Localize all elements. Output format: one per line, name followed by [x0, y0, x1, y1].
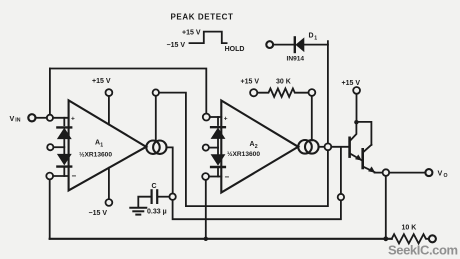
wire hold node down and across to transistor-base loop	[173, 200, 341, 219]
op-amp A2	[221, 101, 298, 193]
svg-text:+15 V: +15 V	[241, 78, 260, 85]
A2 linearizing diode pair	[211, 117, 225, 177]
wire emitter node down to bottom rail	[385, 176, 387, 239]
wire D1 cathode down to A2 output node	[327, 45, 329, 144]
node hold-capacitor pin circle	[169, 194, 175, 200]
pin circle above A1 mirror	[153, 89, 159, 95]
svg-text:30 K: 30 K	[276, 78, 291, 85]
pin circle on base loop	[338, 194, 344, 200]
svg-text:+15 V: +15 V	[92, 78, 111, 85]
svg-text:1: 1	[100, 143, 103, 149]
wire VIN to input node	[36, 117, 47, 119]
svg-text:½XR13600: ½XR13600	[227, 150, 260, 158]
transistor Q2 (darlington output)	[363, 145, 375, 172]
svg-text:0.33 µ: 0.33 µ	[147, 208, 167, 215]
wire - pin to A1	[53, 175, 68, 177]
pin circle A1 inverting input	[46, 173, 53, 180]
svg-text:−: −	[72, 171, 77, 180]
svg-text:C: C	[152, 183, 157, 190]
wire mirror to output pin circle	[319, 146, 325, 148]
bottom rail	[50, 238, 392, 240]
pin circle A2 diode bias	[203, 145, 209, 151]
pin circle A2 output	[325, 143, 332, 150]
wire Q2 emitter to output node	[375, 172, 383, 174]
resistor 30K with +15V terminal	[241, 78, 309, 97]
A1 linearizing diode pair (input diodes)	[57, 118, 71, 176]
svg-text:−15 V: −15 V	[89, 210, 108, 217]
wire pin circle up to base wire	[340, 147, 342, 194]
svg-text:SeekIC.com: SeekIC.com	[388, 243, 458, 258]
ground	[130, 208, 146, 215]
wire A1 mirror output down to hold capacitor node	[167, 147, 173, 193]
wire pin down into A2 mirror	[311, 96, 313, 140]
svg-text:2: 2	[255, 144, 258, 150]
junction collector supply	[354, 120, 358, 124]
svg-text:IN: IN	[15, 117, 20, 123]
svg-text:A: A	[95, 140, 100, 147]
wire node to A1 + input	[53, 117, 69, 119]
A2 output current-mirror symbol	[298, 140, 318, 154]
svg-text:PEAK DETECT: PEAK DETECT	[170, 13, 233, 22]
wire junction to Q2 collector	[356, 122, 371, 145]
wire pin down into mirror	[155, 96, 157, 141]
wire A1 - pin down to bottom rail	[49, 180, 51, 239]
pin circle above A2 mirror	[309, 89, 316, 96]
svg-text:A: A	[250, 141, 255, 148]
terminal Vo	[425, 169, 447, 179]
terminal VIN	[10, 114, 36, 124]
pin circle A2 + input	[203, 114, 210, 121]
wire top rail across to A2 + pin	[50, 69, 206, 114]
svg-text:−: −	[225, 173, 230, 182]
svg-text:V: V	[438, 169, 443, 178]
wire input node up to top rail	[49, 69, 51, 115]
wire + pin to A2	[210, 116, 221, 118]
wire A2 - pin down to bottom rail	[205, 180, 207, 239]
junction A2 - feedback	[204, 237, 208, 241]
resistor 10K	[392, 224, 436, 243]
diode D1 1N914 with HOLD terminal	[266, 33, 328, 63]
wire pin right then down then across to A2 output node	[159, 93, 328, 207]
A1 -15V supply	[89, 168, 113, 217]
svg-text:IN914: IN914	[287, 55, 305, 62]
svg-text:+: +	[224, 115, 228, 122]
svg-text:HOLD: HOLD	[225, 46, 245, 53]
wire - pin to A2	[209, 176, 221, 178]
capacitor C 0.33u	[138, 183, 169, 215]
wire bias pin to diode chain	[209, 147, 218, 149]
svg-text:1: 1	[314, 35, 317, 41]
wire output node to Q1 base	[331, 146, 348, 148]
junction emitter / 10K	[383, 236, 388, 241]
pin circle A1 diode bias	[47, 144, 53, 150]
wire bias pin to diode chain	[54, 146, 65, 148]
svg-text:O: O	[444, 173, 448, 179]
svg-text:V: V	[10, 114, 15, 123]
pin circle A2 inverting input	[202, 173, 209, 180]
node emitter output pin circle	[383, 169, 390, 176]
svg-text:+: +	[71, 116, 75, 123]
svg-text:+15 V: +15 V	[342, 80, 361, 87]
watermark SeekIC.com	[388, 243, 458, 258]
+15V terminal for darlington	[342, 80, 361, 122]
waveform +15V/-15V pulse annotation	[167, 29, 245, 53]
svg-text:D: D	[309, 33, 314, 40]
svg-text:10 K: 10 K	[402, 224, 417, 231]
op-amp A1	[69, 100, 147, 190]
A1 output current-mirror symbol	[146, 141, 166, 154]
wire node to Vo terminal	[389, 172, 425, 174]
title PEAK DETECT	[170, 13, 233, 22]
transistor Q1 (darlington input)	[350, 122, 362, 160]
svg-text:−15 V: −15 V	[167, 42, 186, 49]
node input pin circle	[47, 115, 53, 121]
svg-text:+15 V: +15 V	[182, 29, 201, 36]
A1 +15V supply	[92, 78, 112, 124]
svg-text:½XR13600: ½XR13600	[79, 151, 112, 159]
